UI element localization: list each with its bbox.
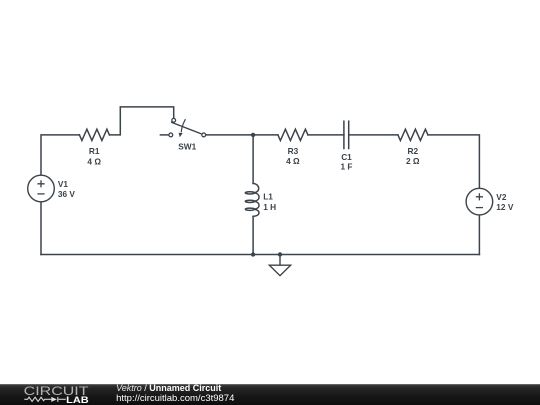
resistor R3	[278, 129, 308, 140]
svg-text:SW1: SW1	[178, 142, 196, 152]
svg-text:V1: V1	[58, 179, 69, 189]
capacitor C1	[344, 121, 349, 148]
wire R2 to V2 top	[428, 135, 480, 188]
wire top junction down to L1	[252, 135, 254, 184]
svg-text:12 V: 12 V	[496, 202, 514, 212]
svg-text:L1: L1	[263, 192, 273, 202]
svg-text:1 F: 1 F	[341, 161, 353, 171]
wire V1 top to R1 left	[41, 135, 79, 175]
inductor L1	[245, 183, 259, 216]
svg-text:R3: R3	[288, 146, 299, 156]
node junction L1 bottom	[251, 252, 255, 256]
wire L1 bottom to bottom rail	[252, 216, 254, 254]
svg-text:Vektro / Unnamed Circuit: Vektro / Unnamed Circuit	[116, 383, 221, 393]
svg-text:R1: R1	[89, 146, 100, 156]
svg-text:1 H: 1 H	[263, 202, 276, 212]
svg-text:LAB: LAB	[66, 395, 89, 405]
svg-text:36 V: 36 V	[58, 189, 76, 199]
svg-text:2 Ω: 2 Ω	[406, 156, 420, 166]
svg-text:4 Ω: 4 Ω	[286, 156, 300, 166]
footer bar	[0, 384, 540, 405]
footer CircuitLab logo	[24, 384, 89, 405]
switch SW1	[169, 118, 206, 137]
wire C1 right plate to R2	[349, 134, 398, 136]
svg-text:4 Ω: 4 Ω	[87, 156, 101, 166]
node junction ground	[278, 252, 282, 256]
wire SW1 left throw stub	[160, 134, 168, 136]
node junction L1 top	[251, 133, 255, 137]
ground	[269, 255, 290, 276]
wire bottom rail	[41, 254, 479, 256]
resistor R1	[79, 129, 109, 140]
resistor R2	[398, 129, 428, 140]
wire V1 bottom to bottom rail	[40, 202, 42, 255]
wire V2 bottom to bottom rail	[478, 215, 480, 255]
svg-text:R2: R2	[407, 146, 418, 156]
voltage source V2	[466, 188, 493, 215]
voltage source V1	[28, 175, 55, 202]
svg-text:V2: V2	[496, 192, 507, 202]
wire SW1 right terminal to R3	[206, 134, 278, 136]
wire R3 to C1 left plate	[308, 134, 344, 136]
wire R1 right up and over to SW1 top terminal	[109, 107, 173, 135]
svg-text:http://circuitlab.com/c3t9874: http://circuitlab.com/c3t9874	[116, 393, 234, 404]
